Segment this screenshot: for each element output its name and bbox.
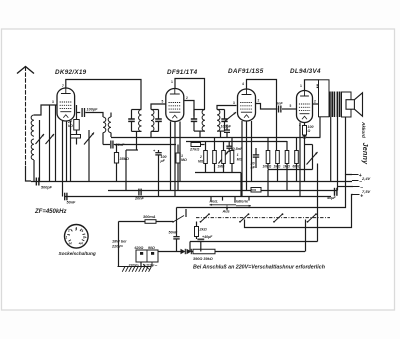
resistor R16 2k: [195, 227, 199, 237]
resistor R6 volume 1M: [213, 151, 217, 164]
svg-text:DK92/X19: DK92/X19: [55, 69, 87, 76]
svg-text:1: 1: [66, 236, 68, 240]
svg-text:–H: –H: [68, 242, 73, 246]
coil L4 IF1 secondary: [151, 110, 154, 132]
svg-text:MΩ: MΩ: [198, 160, 204, 164]
voltage selector pins: [140, 252, 143, 255]
diode D1: [181, 249, 186, 254]
wire U1 filament drop a: [66, 121, 68, 181]
wire netz switch risers: [176, 208, 178, 218]
capacitor C12 0.5nF: [226, 145, 232, 147]
wire grid return U1: [55, 105, 57, 182]
wire antenna to bus: [26, 166, 32, 181]
wire U3 grid-cap bracket: [247, 80, 277, 151]
wire fuse to switch: [156, 221, 173, 223]
svg-text:1: 1: [300, 84, 302, 88]
wire U3 anode: [256, 104, 277, 110]
capacitor C13 20nF: [253, 154, 259, 156]
svg-text:2: 2: [199, 155, 202, 159]
svg-text:DF91/1T4: DF91/1T4: [167, 69, 198, 76]
wire IF1 sec top to U2 grid: [151, 104, 166, 110]
svg-text:2: 2: [314, 100, 316, 104]
switch contact S1b: [241, 215, 249, 222]
wire pot feed stub: [305, 144, 313, 146]
wire IF2 primary top bar: [194, 109, 205, 111]
wire x126 drop: [125, 150, 127, 191]
svg-text:Aus: Aus: [222, 210, 230, 214]
wire junction y172: [195, 172, 241, 174]
svg-text:5: 5: [162, 100, 164, 104]
arrow Batterie: [236, 205, 251, 207]
coil L3 IF1 primary: [139, 110, 142, 132]
capacitor C21 40uF: [197, 238, 204, 240]
wire IF1 primary top bar: [132, 109, 142, 111]
wire row drops left: [205, 141, 207, 151]
svg-text:6nF: 6nF: [276, 102, 283, 106]
wire fuse feed: [119, 221, 146, 223]
svg-text:35kΩ: 35kΩ: [120, 157, 129, 161]
svg-text:4: 4: [242, 82, 244, 86]
wire U1 filament drop b: [70, 121, 72, 181]
wire L2b bottom: [110, 133, 112, 137]
capacitor C7 20nF: [110, 141, 112, 149]
wire bus ticks to switch: [210, 196, 212, 201]
wire R14 bottom: [304, 135, 306, 181]
svg-text:Jenny: Jenny: [361, 143, 370, 166]
tuning capacitor C4 branch: [88, 130, 90, 181]
wire C3 to osc coils: [85, 113, 103, 118]
switch blade netz: [173, 216, 184, 223]
svg-text:Bei Anschluß an 220V=Verschalt: Bei Anschluß an 220V=Verschaltlashnur er…: [193, 265, 326, 271]
wire U4 pin4 lead: [304, 123, 306, 126]
capacitor C20 50nF: [173, 236, 179, 238]
wire row bottoms right: [267, 164, 269, 170]
wire selector to hatch: [140, 262, 142, 267]
aus indicator arrow: [226, 205, 228, 211]
svg-text:Sockelschaltung: Sockelschaltung: [59, 251, 96, 256]
svg-text:20nF: 20nF: [134, 197, 145, 201]
socket circle: [65, 225, 89, 249]
svg-text:Akkord: Akkord: [361, 121, 366, 138]
svg-text:500: 500: [252, 188, 257, 192]
wire trimmer branch 2: [49, 105, 51, 181]
svg-text:3: 3: [52, 100, 54, 104]
wire 7.5V feed: [245, 195, 354, 228]
wire speaker return: [345, 117, 347, 175]
capacitor C16 500pF: [35, 178, 37, 186]
resistor R5: [204, 151, 208, 164]
wire IF2 secondary bottom bar: [217, 130, 225, 132]
coil L1 antenna winding b: [31, 139, 34, 160]
svg-text:7: 7: [62, 84, 64, 88]
wire U3 drop b: [246, 121, 248, 191]
transformer T1 core bars: [329, 92, 331, 118]
coil L2 oscillator winding a: [103, 117, 106, 133]
svg-text:Ω: Ω: [307, 129, 311, 133]
resistor R10: [276, 151, 280, 164]
svg-text:Batterie: Batterie: [234, 200, 248, 204]
wire IF2 sec to U3 grid: [217, 106, 237, 110]
svg-text:6+: 6+: [83, 236, 87, 240]
svg-text:2: 2: [258, 99, 260, 103]
capacitor C11 100pF: [224, 129, 230, 131]
svg-text:+: +: [360, 193, 363, 199]
svg-text:90Ω: 90Ω: [148, 246, 155, 250]
wire U2 drop b: [174, 122, 176, 197]
svg-text:3: 3: [233, 101, 235, 105]
diode detector arrow: [224, 112, 236, 122]
svg-text:390Ω 39kΩ: 390Ω 39kΩ: [193, 257, 213, 261]
wire U1 cathode drop: [62, 121, 64, 197]
svg-text:300mA: 300mA: [143, 215, 156, 219]
transformer T1 secondary: [342, 92, 352, 117]
wire T1 drop b: [337, 117, 339, 191]
capacitor C9 IF2 primary: [191, 118, 197, 120]
wire IF1 secondary top bar: [151, 109, 159, 111]
switch contact S1d: [308, 215, 316, 222]
wire U3 drop a: [241, 121, 243, 196]
wire ground bus y181: [31, 181, 352, 183]
wire U2 drop c: [179, 122, 181, 182]
potentiometer R7 arrow: [219, 151, 229, 164]
resistor R1 27k: [74, 120, 80, 131]
svg-text:500pF: 500pF: [41, 186, 53, 190]
coil L1 antenna winding a: [31, 115, 34, 136]
capacitor C5 IF1 primary: [128, 118, 135, 120]
svg-text:DL94/3V4: DL94/3V4: [290, 68, 321, 75]
wire U2 drop a: [170, 122, 172, 191]
svg-text:220V≈: 220V≈: [111, 245, 124, 249]
svg-text:ZF=450kHz: ZF=450kHz: [34, 209, 67, 215]
switch contact S1a: [201, 215, 209, 222]
svg-text:100pF: 100pF: [87, 108, 99, 112]
svg-text:µF: µF: [160, 159, 166, 163]
wire 2.4V feed: [177, 175, 353, 208]
tuning capacitor C4 arrow: [84, 133, 94, 145]
capacitor C17 20nF: [138, 189, 140, 196]
svg-text:50nF: 50nF: [67, 201, 77, 205]
wire selector to rectifier: [158, 251, 181, 253]
wire U2 anode: [185, 101, 195, 117]
resistor R12 680: [295, 151, 299, 164]
trimmer capacitor C2 arrow: [46, 134, 55, 144]
switch box 500ohm: [251, 188, 261, 193]
svg-text:3: 3: [75, 228, 77, 232]
svg-text:2kΩ: 2kΩ: [199, 228, 207, 232]
wire IF1 primary drop: [136, 131, 138, 150]
svg-text:1: 1: [237, 153, 239, 157]
wire IF1 secondary bottom bar: [151, 130, 159, 132]
wire antenna coil to U1 pin: [34, 105, 57, 115]
diode D2: [187, 249, 192, 254]
coil L5 IF2 primary: [202, 110, 205, 132]
junction box below R1: [71, 135, 81, 139]
resistor R4 1M: [176, 153, 180, 163]
svg-text:4: 4: [81, 229, 84, 233]
wire C14 to U4 grid: [282, 108, 296, 110]
wire bus y196: [65, 196, 332, 198]
transformer T1 primary: [319, 80, 330, 117]
battery tick - 2: [353, 186, 360, 188]
wire IF1 primary bottom bar: [132, 130, 142, 132]
trimmer capacitor C1 arrow: [36, 134, 45, 144]
battery tick -: [352, 180, 359, 182]
wire L1 bottom to bus: [33, 160, 35, 181]
tube U4 DL94: [297, 91, 313, 123]
capacitor C6 IF1 secondary: [155, 118, 162, 120]
wire AGC line y137: [111, 137, 321, 139]
wire trimmer branch 1: [39, 120, 41, 181]
svg-text:620Ω: 620Ω: [135, 246, 144, 250]
svg-text:27kΩ: 27kΩ: [189, 148, 199, 152]
wire IF2 secondary top bar: [217, 109, 225, 111]
svg-text:40µF: 40µF: [326, 196, 336, 200]
potentiometer R13 arrow: [307, 152, 318, 165]
speaker LS1 cone: [354, 93, 362, 116]
socket pins: [75, 227, 77, 230]
resistor R11: [285, 151, 289, 164]
antenna lead wire (dashed): [25, 67, 27, 167]
capacitor C8 100uF electrolytic: [155, 152, 161, 154]
wire junction line y150: [126, 149, 138, 151]
battery tick +7.5V: [353, 194, 360, 196]
resistor R14 100: [303, 126, 307, 136]
svg-text:+H: +H: [79, 242, 84, 246]
wire tick3 to filament: [338, 186, 354, 188]
wire U3 drop c: [251, 121, 253, 181]
switch linkage dash-dot line: [196, 217, 330, 219]
wire U4 anode to T1: [313, 103, 319, 105]
wire mains left drop: [118, 222, 120, 267]
wire T1 drop a: [330, 117, 332, 181]
svg-text:2: 2: [186, 96, 188, 100]
resistor R3 27k horizontal: [191, 143, 201, 147]
coil L2 oscillator winding b: [108, 117, 111, 133]
wire heater DC line: [190, 241, 318, 243]
selector arrow: [143, 264, 150, 270]
capacitor C18 50nF: [64, 193, 66, 201]
svg-text:+40µF: +40µF: [202, 235, 213, 239]
tube U1 DK92: [57, 88, 75, 121]
svg-text:DAF91/1S5: DAF91/1S5: [228, 68, 264, 75]
coil L6 IF2 secondary: [217, 110, 220, 132]
wire L2a bottom: [102, 133, 104, 145]
wire vol pot branch: [312, 145, 314, 170]
capacitor C10 IF2 secondary: [221, 118, 227, 120]
capacitor C15 6nF tone: [319, 80, 321, 84]
battery tick +2.4V: [352, 174, 359, 176]
svg-text:100pF: 100pF: [221, 125, 232, 129]
wire line y141: [186, 141, 287, 143]
capacitor C14 6nF coupling: [278, 106, 280, 113]
svg-text:2: 2: [67, 229, 70, 233]
svg-text:10MΩ: 10MΩ: [263, 165, 272, 169]
capacitor C3 100pF: [81, 108, 83, 117]
wire y144.5 feed line: [103, 144, 110, 146]
wire row bottoms left: [205, 164, 207, 173]
voltage selector box: [136, 250, 158, 262]
wire U1 grid-cap to IF1 top: [66, 80, 141, 110]
resistor R7 1M: [222, 151, 226, 164]
fuse F1 300mA: [145, 220, 156, 224]
wire U2 grid-cap to IF2 top: [175, 79, 205, 110]
capacitor C19 40uF: [334, 188, 336, 196]
svg-text:5: 5: [290, 104, 292, 108]
svg-text:50nF: 50nF: [169, 231, 179, 235]
svg-text:1: 1: [171, 80, 173, 84]
junction circle AGC: [303, 136, 306, 139]
wire row drops right: [267, 137, 269, 151]
antenna arrow: [17, 67, 34, 74]
resistor R2 35k: [114, 153, 118, 164]
wire R15 to battery line: [215, 251, 305, 253]
resistor R15 390ohm dropper: [193, 249, 215, 254]
svg-text:18W bei: 18W bei: [112, 240, 127, 244]
resistor R8 1M: [230, 151, 234, 164]
speaker LS1 magnet: [346, 100, 354, 110]
tube U3 DAF91: [238, 89, 256, 121]
resistor R9 10M: [266, 151, 270, 164]
wire junction y169: [268, 169, 313, 171]
wire D2 to R15: [191, 251, 193, 253]
wire IF2 primary bottom bar: [194, 130, 205, 132]
svg-text:MΩ: MΩ: [181, 158, 187, 162]
switch contact S1c: [275, 215, 283, 222]
wire heater bus y190: [108, 190, 338, 192]
wire U4 grid-cap to output transformer: [305, 80, 319, 91]
svg-text:2,4V: 2,4V: [361, 176, 371, 181]
chassis ground hatch: [118, 266, 152, 268]
wire mains DC riser: [305, 220, 307, 252]
wire U4 screen drop: [299, 123, 301, 197]
wire U1 anode lead: [77, 112, 81, 114]
tube U2 DF91: [166, 89, 184, 122]
arrow Heiz: [210, 204, 237, 206]
